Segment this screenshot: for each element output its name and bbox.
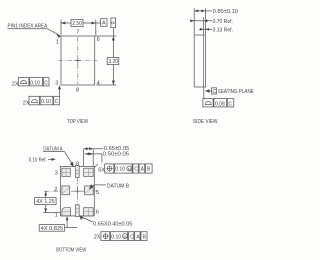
svg-text:C: C (213, 89, 217, 95)
svg-text:1: 1 (56, 39, 59, 45)
svg-text:0.10: 0.10 (115, 167, 125, 173)
svg-text:2.50: 2.50 (72, 21, 82, 27)
svg-text:TOP VIEW: TOP VIEW (67, 119, 89, 125)
svg-text:0.10 Ref.: 0.10 Ref. (29, 158, 48, 164)
svg-text:3: 3 (55, 170, 58, 176)
svg-text:4X 0.825: 4X 0.825 (41, 226, 64, 232)
svg-text:B: B (111, 21, 116, 24)
svg-text:0.65X0.40±0.05: 0.65X0.40±0.05 (93, 222, 132, 228)
svg-text:0.70 Ref.: 0.70 Ref. (213, 19, 234, 25)
svg-text:4: 4 (97, 80, 100, 86)
svg-text:3.20: 3.20 (108, 59, 118, 65)
svg-text:6: 6 (97, 37, 100, 43)
svg-text:C: C (228, 101, 232, 107)
svg-text:8: 8 (76, 161, 79, 167)
svg-text:0.50±0.05: 0.50±0.05 (103, 152, 129, 158)
svg-text:M: M (123, 234, 126, 239)
svg-text:2X: 2X (12, 82, 19, 88)
svg-text:6: 6 (96, 210, 99, 216)
svg-text:0.10: 0.10 (111, 234, 121, 240)
svg-text:2X: 2X (94, 235, 101, 241)
svg-text:SEATING PLANE: SEATING PLANE (218, 89, 254, 95)
svg-text:5: 5 (96, 190, 99, 196)
svg-text:2: 2 (54, 187, 57, 193)
svg-text:0.85±0.10: 0.85±0.10 (213, 9, 238, 15)
svg-text:M: M (128, 166, 131, 171)
svg-text:A: A (102, 21, 106, 27)
svg-text:7: 7 (76, 29, 79, 35)
svg-text:6X: 6X (98, 168, 105, 174)
svg-text:C: C (44, 80, 48, 86)
svg-text:1: 1 (55, 212, 58, 218)
svg-text:0.10: 0.10 (30, 80, 40, 86)
svg-text:0.08: 0.08 (215, 101, 225, 107)
svg-text:0.10: 0.10 (41, 99, 51, 105)
svg-text:3: 3 (55, 81, 58, 87)
svg-text:4X 1.25: 4X 1.25 (36, 199, 55, 205)
svg-text:DATUM B: DATUM B (107, 184, 129, 190)
svg-text:0.13 Ref.: 0.13 Ref. (213, 28, 234, 34)
svg-text:C: C (134, 167, 138, 173)
svg-text:BOTTOM VIEW: BOTTOM VIEW (56, 247, 87, 253)
svg-text:8: 8 (76, 88, 79, 94)
svg-text:SIDE VIEW: SIDE VIEW (193, 119, 218, 125)
svg-text:C: C (130, 234, 134, 240)
svg-text:C: C (55, 99, 59, 105)
